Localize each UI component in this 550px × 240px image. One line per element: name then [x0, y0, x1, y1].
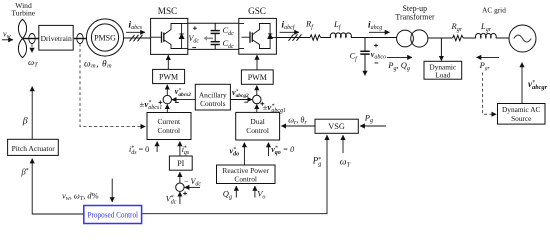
svg-text:Qg: Qg	[223, 189, 232, 201]
wire between capacitors	[214, 33, 216, 41]
DC link top rail	[188, 22, 239, 24]
arrow Dual Control to junction	[256, 104, 258, 112]
resistor R_f	[305, 19, 321, 41]
DC voltage label V_dc	[189, 26, 200, 47]
PI box	[169, 156, 192, 170]
inputs v_w omega_T d% into Proposed Control	[62, 179, 112, 203]
svg-text:i*ds = 0: i*ds = 0	[129, 145, 149, 156]
arrow PWM to MSC	[167, 55, 169, 69]
Proposed Control box	[84, 206, 142, 224]
omega_T input to VSG	[340, 135, 351, 168]
svg-text:Lf: Lf	[333, 19, 342, 31]
svg-text:vabco: vabco	[371, 50, 386, 61]
Dual Control box	[236, 112, 280, 140]
wind turbine blades	[18, 19, 26, 57]
transformer T1	[397, 30, 428, 47]
stub v*_qo = 0 into Dual Control	[269, 143, 295, 157]
svg-text:Control: Control	[246, 126, 269, 135]
wire R_f to L_f	[321, 37, 331, 39]
svg-text:v*abcg2: v*abcg2	[232, 88, 249, 99]
IGBT symbol inside MSC	[153, 24, 184, 49]
dashed P_gr feedback to Dynamic AC Source	[483, 73, 497, 115]
stub i*_ds = 0 into Current Control	[129, 142, 157, 157]
wire L_f to transformer	[351, 37, 397, 39]
svg-text:Rf: Rf	[305, 19, 314, 31]
svg-text:iabcg: iabcg	[368, 19, 382, 31]
PWM box (GSC)	[241, 70, 273, 84]
arrow PWM to GSC	[256, 55, 258, 70]
svg-text:GSC: GSC	[248, 6, 266, 16]
wire capacitor to bottom rail	[214, 45, 216, 50]
omega_m theta_m dashed feedback to Current Control	[80, 44, 145, 127]
converter GSC box	[239, 18, 277, 54]
P_g* command line from Proposed Control to VSG	[142, 135, 327, 214]
current label i_abcs with arrow	[126, 19, 145, 32]
input V_o to RPC	[255, 186, 266, 200]
svg-text:− Vdc: − Vdc	[184, 177, 201, 188]
svg-text:Control: Control	[158, 126, 181, 135]
label: Wind Turbine	[11, 1, 35, 18]
svg-text:MSC: MSC	[158, 6, 177, 16]
label Step-up Transformer	[395, 4, 435, 21]
svg-text:V*dc: V*dc	[166, 195, 177, 206]
wire MSC internal stubs	[151, 24, 189, 49]
three-phase slashes on filter wire	[289, 34, 302, 41]
svg-text:vw: vw	[3, 30, 11, 41]
svg-text:v*do: v*do	[230, 147, 240, 158]
wire GSC internal stubs	[239, 24, 277, 49]
speed sensor ellipse (turbine shaft)	[29, 34, 35, 44]
svg-text:Dual: Dual	[250, 117, 264, 126]
svg-text:Proposed Control: Proposed Control	[88, 210, 139, 219]
Ancillary Controls box	[195, 84, 230, 110]
input Q_g to RPC	[223, 186, 237, 200]
wire R_gr to L_gr	[463, 37, 476, 39]
resistor R_gr	[451, 21, 464, 41]
svg-text:Cdc: Cdc	[223, 38, 235, 50]
wire transformer to R_gr	[428, 37, 453, 39]
wire RPC to Dual Control v*_do	[230, 143, 245, 166]
svg-text:β: β	[22, 116, 28, 127]
svg-text:vw, ωT, d%: vw, ωT, d%	[62, 192, 99, 203]
svg-text:Pg: Pg	[364, 112, 373, 124]
three-phase slashes on stator wire	[130, 35, 143, 42]
Dynamic Load box	[424, 61, 462, 79]
wire L_gr to AC grid	[496, 37, 509, 39]
svg-text:Vdc: Vdc	[189, 34, 200, 45]
Drivetrain box	[39, 25, 73, 50]
svg-text:Pg, Qg: Pg, Qg	[387, 60, 410, 72]
power labels P_g Q_g with arrow	[387, 57, 412, 72]
svg-text:Drivetrain: Drivetrain	[41, 34, 72, 43]
omega_T dashed tap	[28, 44, 38, 68]
svg-text:PI: PI	[177, 159, 184, 168]
svg-text:±v*abcs1: ±v*abcs1	[140, 99, 163, 111]
svg-text:Cdc: Cdc	[223, 25, 235, 37]
wire VSG to Dual Control with omega_r theta_r	[281, 115, 315, 126]
arrow Ancillary to MSC junction	[172, 99, 196, 101]
beta output arrow	[22, 87, 32, 140]
svg-text:Lgr: Lgr	[480, 21, 492, 33]
shaft wire turbine to drivetrain	[23, 38, 39, 40]
svg-text:i*qs: i*qs	[182, 145, 190, 156]
VSG box	[315, 119, 358, 133]
arrow junction to PWM GSC	[256, 86, 258, 96]
wire GSC to R_f	[277, 37, 311, 39]
svg-text:β*: β*	[21, 167, 29, 177]
svg-text:VSG: VSG	[328, 122, 345, 131]
svg-text:Vo: Vo	[257, 189, 265, 201]
capacitor C_f	[360, 51, 369, 54]
summing junction (MSC side)	[163, 95, 171, 103]
svg-text:Controls: Controls	[200, 99, 226, 108]
svg-text:Pgr: Pgr	[479, 60, 491, 72]
svg-text:Cf: Cf	[350, 51, 359, 63]
power flow gray arrow	[204, 36, 214, 41]
svg-text:PMSG: PMSG	[94, 34, 116, 43]
svg-text:ωT: ωT	[340, 157, 351, 168]
wire PI to Current Control i*_qs	[180, 142, 190, 157]
converter MSC box	[151, 18, 188, 54]
arrow Current Control to junction	[166, 104, 168, 112]
power label P_gr with arrow	[477, 57, 500, 71]
svg-text:Turbine: Turbine	[11, 9, 35, 18]
summing junction (DC voltage)	[176, 183, 184, 191]
IGBT symbol inside GSC	[242, 24, 273, 49]
DC link capacitor branch wire	[214, 23, 216, 30]
Dynamic AC Source box	[498, 104, 546, 125]
current label i_abcg with arrow	[368, 19, 390, 32]
capacitor C_dc (top)	[211, 31, 220, 34]
svg-text:iabcf: iabcf	[282, 19, 296, 31]
Pitch Actuator box	[8, 139, 59, 155]
svg-text:P*g: P*g	[312, 156, 322, 168]
inductor L_gr	[475, 21, 496, 38]
svg-text:Rgr: Rgr	[451, 21, 463, 33]
svg-text:AC grid: AC grid	[482, 6, 506, 15]
svg-text:ωT: ωT	[28, 57, 38, 69]
ground arrow below C_f	[364, 54, 366, 75]
svg-text:PWM: PWM	[248, 73, 267, 82]
current label i_abcf with arrow	[280, 19, 300, 32]
sign plus (GSC junction)	[260, 102, 264, 106]
AC grid source	[509, 25, 536, 52]
generator PMSG	[86, 19, 123, 56]
arrow junction to PWM	[166, 85, 168, 96]
input -V_dc	[184, 177, 201, 188]
svg-text:Dynamic AC: Dynamic AC	[502, 105, 540, 114]
svg-text:v*abcgr: v*abcgr	[528, 79, 548, 91]
sign minus (MSC junction)	[175, 102, 179, 104]
node to dynamic load	[440, 38, 442, 61]
beta* command into Pitch Actuator	[21, 159, 85, 214]
P_g input to VSG	[360, 112, 386, 126]
sign plus (MSC junction)	[158, 101, 162, 105]
input V*_dc	[166, 192, 187, 206]
capacitor C_dc (bottom)	[211, 42, 220, 45]
arrow Ancillary to GSC junction	[230, 99, 252, 101]
shaft wire drivetrain to PMSG	[74, 38, 87, 40]
sign minus (GSC junction)	[244, 101, 248, 103]
DC link bottom rail	[188, 48, 239, 50]
svg-text:Source: Source	[511, 114, 531, 123]
svg-text:Load: Load	[435, 71, 450, 80]
summing junction (GSC side)	[253, 95, 261, 103]
svg-text:ωr, θr: ωr, θr	[288, 115, 307, 126]
voltage label v_abco	[371, 44, 386, 63]
svg-text:Pitch Actuator: Pitch Actuator	[12, 144, 56, 153]
svg-text:ωm, θm: ωm, θm	[84, 59, 112, 69]
arrow junction to PI	[179, 172, 181, 183]
svg-text:Control: Control	[234, 174, 257, 183]
speed sensor ellipse (generator shaft)	[77, 34, 83, 44]
PWM box (MSC)	[153, 69, 185, 83]
node at filter capacitor	[364, 38, 366, 52]
Reactive Power Control box	[217, 165, 276, 184]
Current Control box	[147, 113, 191, 140]
svg-text:v*abcs2: v*abcs2	[175, 87, 191, 98]
inductor L_f	[330, 19, 351, 38]
grid voltage command v*_abcgr arrow	[522, 63, 548, 104]
wind speed input v_w	[2, 30, 13, 41]
svg-text:v*qo = 0: v*qo = 0	[271, 145, 294, 156]
svg-text:Transformer: Transformer	[395, 12, 435, 21]
svg-text:iabcs: iabcs	[129, 19, 143, 31]
svg-text:PWM: PWM	[159, 72, 178, 81]
wire PMSG to MSC	[124, 37, 151, 39]
